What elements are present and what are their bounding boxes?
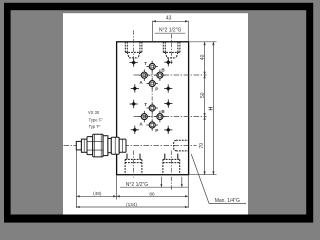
labels VS 30 / Type F / Typ F [88,110,103,129]
svg-text:Type 'F': Type 'F' [89,117,103,122]
svg-text:86: 86 [149,191,155,196]
svg-text:50: 50 [200,92,206,98]
inner gray mat [11,10,307,214]
pattern centerline extensions to dimension line [134,75,207,116]
port T of pattern 2 [147,102,158,114]
svg-text:P: P [155,86,158,91]
cartridge valve facet lines [84,134,122,157]
bottom extension lines [76,151,188,208]
mounting hole top-right of pattern 1 [164,58,172,66]
port labels T A B P of pattern 1 [139,61,165,92]
mounting hole bottom-left of pattern 1 [131,84,139,92]
manifold block outline [117,42,189,175]
svg-text:T: T [144,102,147,107]
cartridge valve VS30 on left face [76,134,126,157]
port T of pattern 1 [147,61,158,72]
bottom port 1 centerline [133,151,135,178]
port A of pattern 1 [139,70,150,81]
port P of pattern 2 [147,119,158,130]
port B of pattern 1 [154,70,165,81]
dimension (134) [76,206,188,208]
leader line Man. 1/4"G [191,154,246,204]
port P of pattern 1 [147,78,158,89]
mounting hole top-left of pattern 1 [130,58,138,66]
svg-text:N°2 1/2"G: N°2 1/2"G [159,28,182,34]
svg-text:H: H [209,107,215,111]
top port 1 thread bore [125,42,142,58]
svg-text:T: T [144,61,147,66]
horizontal centerline through fitting and manometer port [64,145,197,147]
mounting hole bottom-right of pattern 2 [164,126,172,134]
svg-text:70: 70 [199,143,205,149]
dimension 86 [117,195,189,197]
top port 2 centerline [171,34,173,64]
port B of pattern 2 [154,111,165,122]
svg-text:VS 30: VS 30 [88,110,100,115]
svg-text:P: P [155,128,158,133]
port labels T A B P of pattern 2 [139,102,165,133]
bottom port 2 centerline [170,151,172,190]
white drawing sheet [63,13,248,214]
right extension lines from block edges [189,42,216,175]
mounting hole top-left of pattern 2 [130,100,138,108]
mounting hole bottom-left of pattern 2 [131,126,139,134]
svg-text:(48): (48) [93,191,102,196]
port A of pattern 2 [139,111,150,122]
svg-text:Typ 'F': Typ 'F' [89,124,101,129]
patterns vertical centerline [151,62,153,131]
svg-text:43: 43 [166,15,172,21]
top port 1 centerline [133,30,135,64]
overall height dimension line H [212,42,214,175]
mounting hole top-right of pattern 2 [164,99,172,107]
top port 2 thread bore [163,42,180,58]
svg-text:(134): (134) [126,202,137,207]
chained vertical dimension line 40/50/70 [204,42,206,175]
svg-text:40: 40 [200,54,206,60]
bottom port 1 thread bore [125,154,142,174]
dimension (48) [76,195,116,197]
svg-text:Man. 1/4"G: Man. 1/4"G [215,198,240,204]
manometer side port on right face [174,140,189,151]
bottom port 2 thread bore [163,154,180,174]
dimension 43 line and extension lines [153,21,189,42]
mounting hole bottom-right of pattern 1 [164,84,172,92]
